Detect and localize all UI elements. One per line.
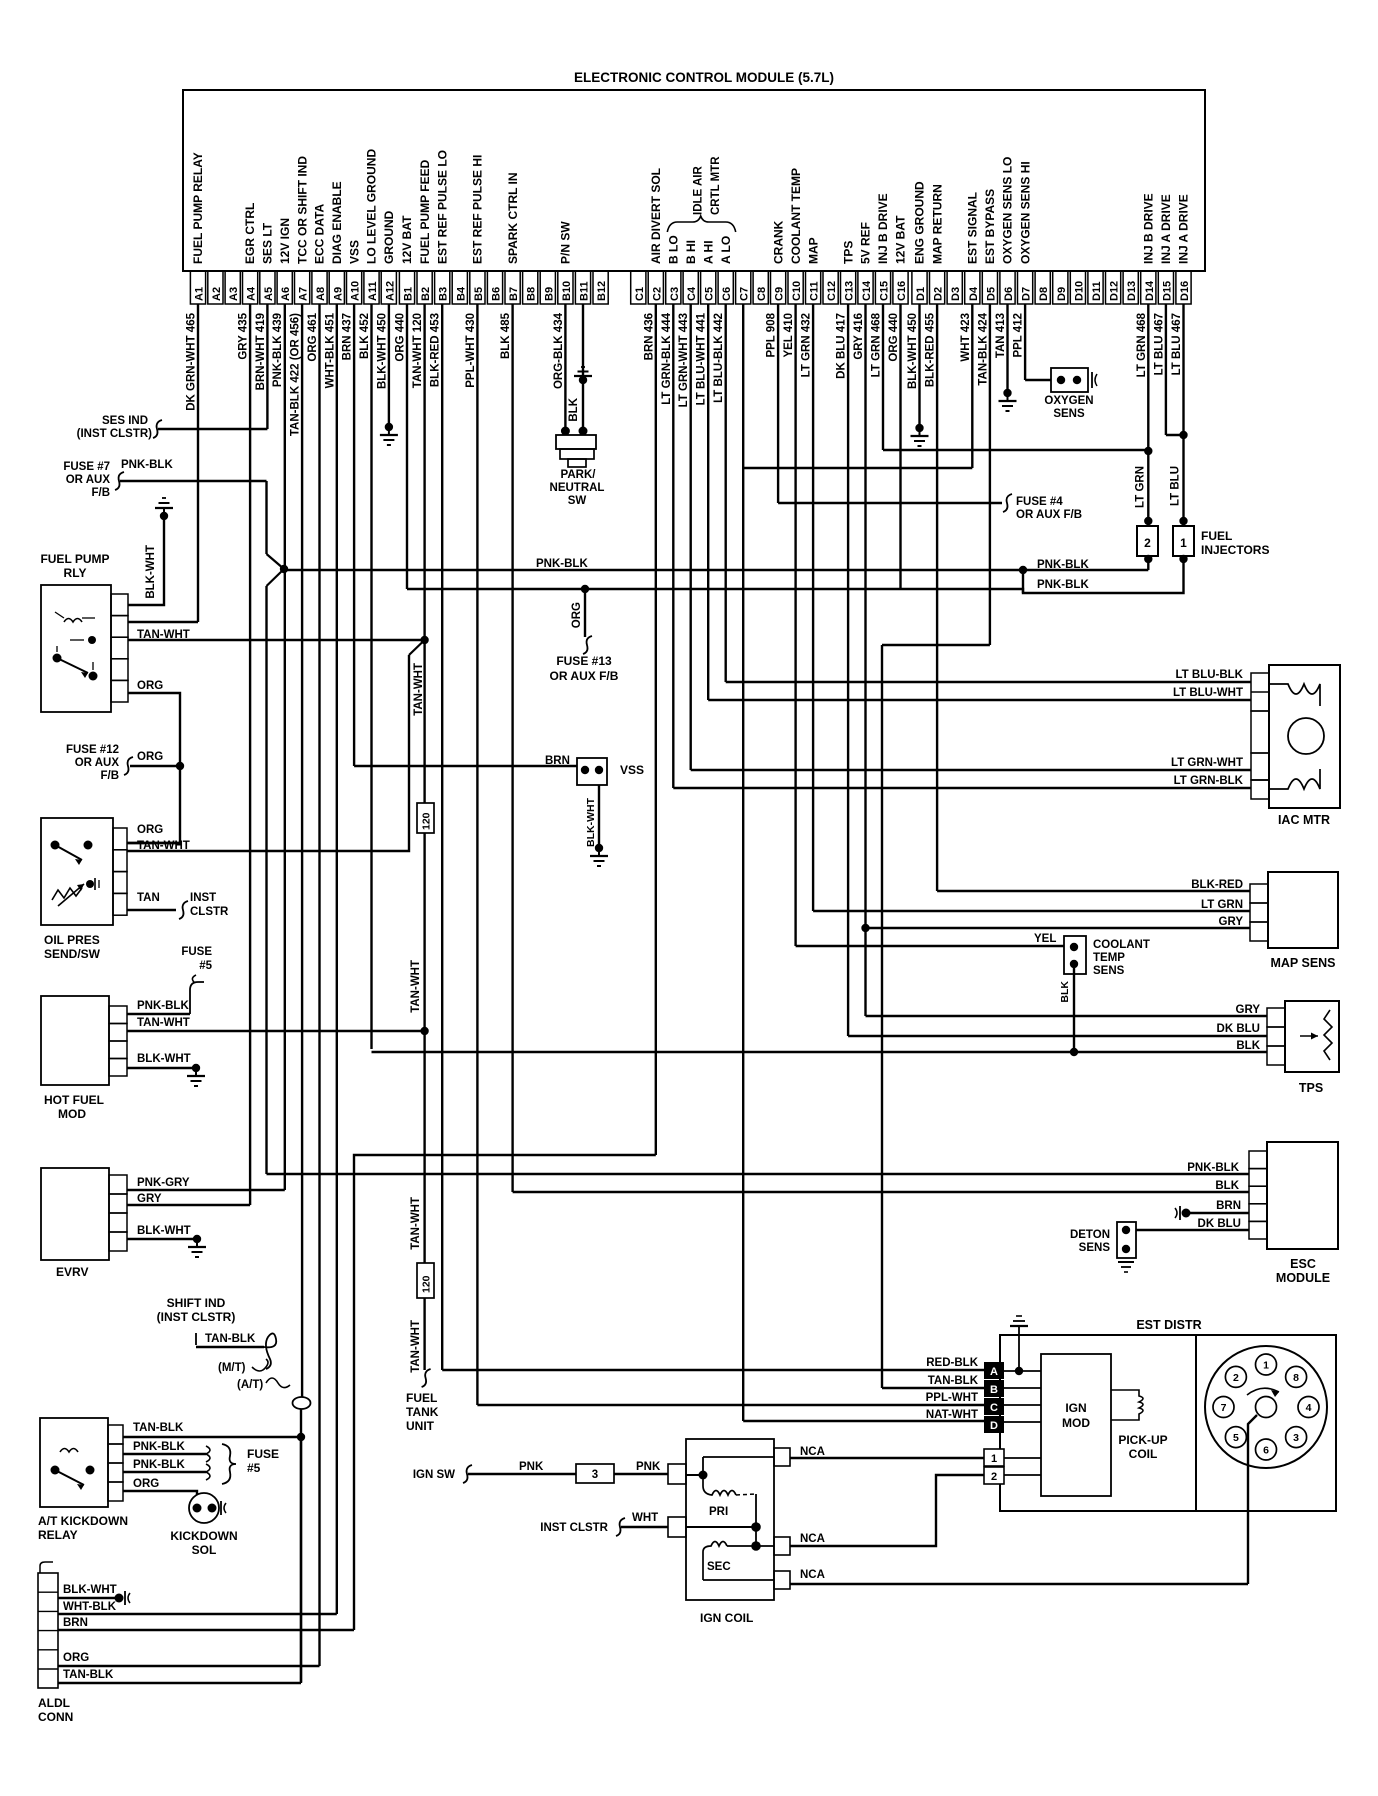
svg-text:A2: A2 xyxy=(211,287,223,301)
label PNK-BLK xyxy=(133,1459,185,1471)
svg-text:DK BLU 417: DK BLU 417 xyxy=(836,313,848,379)
label BLK-WHT xyxy=(137,1053,191,1065)
svg-text:KICKDOWN: KICKDOWN xyxy=(170,1529,237,1543)
svg-text:PNK-BLK: PNK-BLK xyxy=(133,1441,185,1453)
svg-text:EGR CTRL: EGR CTRL xyxy=(243,203,257,264)
label GRY xyxy=(137,1193,162,1205)
svg-text:D11: D11 xyxy=(1091,281,1103,301)
svg-text:7: 7 xyxy=(1221,1402,1227,1414)
svg-text:BLK-WHT: BLK-WHT xyxy=(137,1053,191,1065)
svg-text:#5: #5 xyxy=(199,960,212,972)
label ORG xyxy=(137,751,163,763)
svg-text:SES IND: SES IND xyxy=(102,415,148,427)
svg-text:PNK-BLK: PNK-BLK xyxy=(1187,1162,1239,1174)
component IGN MOD box xyxy=(1041,1354,1111,1496)
connector FUSE #5 brace xyxy=(222,1444,279,1484)
svg-text:BLK-WHT: BLK-WHT xyxy=(145,545,157,599)
wire from pin D1 with ground xyxy=(911,304,929,446)
connector SES IND (INST CLSTR) xyxy=(77,415,162,440)
wire from pin B10 ORG-BLK 434 xyxy=(564,304,566,431)
component PARK/NEUTRAL SW xyxy=(550,427,605,508)
svg-text:PPL-WHT 430: PPL-WHT 430 xyxy=(465,313,477,388)
svg-text:LO LEVEL GROUND: LO LEVEL GROUND xyxy=(365,149,379,264)
svg-text:D7: D7 xyxy=(1021,287,1033,301)
svg-text:D15: D15 xyxy=(1161,281,1173,301)
wire ORG node down to oil pres xyxy=(127,766,180,843)
svg-text:PNK: PNK xyxy=(636,1461,661,1473)
svg-text:NCA: NCA xyxy=(800,1446,825,1458)
svg-text:BLK-WHT 450: BLK-WHT 450 xyxy=(376,313,388,389)
svg-text:C6: C6 xyxy=(721,287,733,301)
svg-text:C10: C10 xyxy=(791,281,803,301)
svg-text:MAP: MAP xyxy=(806,237,820,264)
svg-text:SEC: SEC xyxy=(707,1561,731,1573)
svg-text:TAN-WHT: TAN-WHT xyxy=(413,663,425,716)
svg-text:IAC MTR: IAC MTR xyxy=(1278,813,1330,827)
wire NCA 1 xyxy=(790,1457,984,1459)
svg-text:EST SIGNAL: EST SIGNAL xyxy=(966,192,980,264)
wire kickdown PNK-BLK fuse arm 1 xyxy=(123,1446,210,1462)
svg-text:D16: D16 xyxy=(1179,281,1191,301)
wire from pin D7 PPL 412 xyxy=(1024,304,1026,380)
wire ESC BLK from B7 xyxy=(513,1191,1249,1193)
svg-text:ECC DATA: ECC DATA xyxy=(313,203,327,264)
wire B2 below 120 resistor xyxy=(423,833,425,1263)
svg-text:ORG: ORG xyxy=(571,602,583,628)
svg-text:2: 2 xyxy=(991,1471,997,1483)
wire C9 to FUSE 4 xyxy=(778,494,1012,512)
svg-text:B HI: B HI xyxy=(684,240,698,264)
svg-text:A5: A5 xyxy=(263,287,275,301)
svg-text:C7: C7 xyxy=(739,287,751,301)
svg-text:A12: A12 xyxy=(384,281,396,301)
svg-text:INJ A DRIVE: INJ A DRIVE xyxy=(1159,194,1173,264)
ECM wire colour labels (rotated) xyxy=(186,312,1184,436)
svg-text:TAN-BLK 424: TAN-BLK 424 xyxy=(977,312,989,385)
wire PNK-BLK injector feed 1 xyxy=(284,559,1148,574)
svg-text:A7: A7 xyxy=(298,287,310,301)
component FUEL TANK UNIT label xyxy=(406,1391,439,1433)
svg-text:6: 6 xyxy=(1263,1445,1269,1457)
wire from pin C6 LT BLU-BLK 442 xyxy=(725,304,727,682)
svg-text:B2: B2 xyxy=(420,287,432,301)
svg-text:4: 4 xyxy=(1306,1402,1312,1414)
resistor 120 upper xyxy=(417,803,434,833)
wire MAP BLK-RED xyxy=(937,890,1250,892)
svg-text:BRN: BRN xyxy=(63,1617,88,1629)
svg-text:120: 120 xyxy=(421,812,433,830)
wire D5 jog xyxy=(882,644,990,646)
svg-text:ORG: ORG xyxy=(133,1478,159,1490)
svg-text:CRTL MTR: CRTL MTR xyxy=(710,156,722,215)
svg-text:OXYGEN SENS HI: OXYGEN SENS HI xyxy=(1018,161,1032,264)
wire oil pres ORG xyxy=(127,842,180,844)
component TPS xyxy=(1267,1001,1339,1095)
label PNK xyxy=(636,1461,661,1473)
label BLK-WHT xyxy=(63,1584,117,1596)
wire ALDL WHT-BLK to A9 xyxy=(58,1613,337,1615)
wire BRN riser and crossover xyxy=(354,1155,656,1630)
svg-text:COOLANT TEMP: COOLANT TEMP xyxy=(789,168,803,264)
connector FUSE #5 xyxy=(181,946,212,1014)
svg-text:FUEL: FUEL xyxy=(1201,529,1232,543)
label (A/T) pigtail xyxy=(237,1378,311,1409)
svg-text:NCA: NCA xyxy=(800,1569,825,1581)
wire relay BLK-WHT to ground xyxy=(128,498,173,605)
svg-text:SW: SW xyxy=(568,495,587,507)
label BLK xyxy=(1236,1040,1260,1052)
wire from pin C11 LT GRN 432 xyxy=(812,304,814,911)
component DETON SENS xyxy=(1070,1222,1136,1272)
label BLK (rotated) xyxy=(1059,981,1071,1003)
svg-text:ORG: ORG xyxy=(137,751,163,763)
wire kickdown ORG to solenoid xyxy=(123,1491,197,1495)
wire MAP LT GRN xyxy=(813,910,1250,912)
svg-text:F/B: F/B xyxy=(100,770,119,782)
label DK BLU xyxy=(1217,1023,1260,1035)
label LT BLU xyxy=(1170,466,1182,506)
svg-text:MAP SENS: MAP SENS xyxy=(1270,956,1335,970)
wire relay ORG to fuse 12 node xyxy=(128,693,184,770)
svg-text:PNK-BLK: PNK-BLK xyxy=(133,1459,185,1471)
label BLK xyxy=(1215,1180,1239,1192)
kickdown relay internals xyxy=(51,1449,95,1491)
svg-text:2: 2 xyxy=(1233,1372,1239,1384)
label TAN-WHT (rotated) xyxy=(410,960,422,1013)
svg-text:ELECTRONIC CONTROL MODULE (5.7: ELECTRONIC CONTROL MODULE (5.7L) xyxy=(574,70,834,85)
wire from pin C13 DK BLU 417 xyxy=(847,304,849,1036)
svg-text:DETON: DETON xyxy=(1070,1229,1110,1241)
svg-text:WHT 423: WHT 423 xyxy=(960,313,972,362)
label ORG xyxy=(137,680,163,692)
svg-text:TAN-WHT: TAN-WHT xyxy=(137,840,190,852)
wire MAP GRY xyxy=(866,927,1251,929)
svg-text:PPL-WHT: PPL-WHT xyxy=(926,1392,978,1404)
component COOLANT TEMP SENS xyxy=(1064,936,1150,977)
label TAN-BLK xyxy=(133,1422,184,1434)
svg-text:BLK: BLK xyxy=(1059,981,1071,1003)
svg-text:PPL 412: PPL 412 xyxy=(1013,313,1025,358)
svg-text:BLK: BLK xyxy=(1236,1040,1260,1052)
svg-text:C15: C15 xyxy=(879,281,891,301)
svg-text:5V REF: 5V REF xyxy=(859,222,873,264)
svg-text:LT BLU-WHT 441: LT BLU-WHT 441 xyxy=(696,312,708,405)
svg-text:FUSE #13: FUSE #13 xyxy=(556,654,612,668)
label ORG xyxy=(133,1478,159,1490)
label BLK-WHT xyxy=(137,1225,191,1237)
svg-text:OR AUX F/B: OR AUX F/B xyxy=(550,669,619,683)
svg-text:COIL: COIL xyxy=(1129,1447,1158,1461)
svg-text:ENG GROUND: ENG GROUND xyxy=(913,181,927,264)
svg-text:FUSE #12: FUSE #12 xyxy=(66,744,119,756)
wire from pin A4 GRY 435 xyxy=(249,304,251,1205)
wire fuse 13 tap xyxy=(581,585,592,654)
wire from pin B1 ORG 440 xyxy=(406,304,408,589)
svg-text:SENS: SENS xyxy=(1093,965,1125,977)
svg-text:12V IGN: 12V IGN xyxy=(278,218,292,264)
svg-text:C9: C9 xyxy=(774,287,786,301)
svg-text:OR AUX: OR AUX xyxy=(66,474,111,486)
wire NCA 2 xyxy=(790,1475,984,1546)
svg-text:(INST CLSTR): (INST CLSTR) xyxy=(77,428,153,440)
svg-text:A6: A6 xyxy=(280,287,292,301)
label PNK-BLK xyxy=(1037,559,1089,571)
svg-text:A4: A4 xyxy=(246,286,258,301)
wire A7 TAN-BLK run xyxy=(297,304,305,1682)
label WHT xyxy=(632,1512,658,1524)
wire EVRV BLK-WHT to ground xyxy=(127,1235,206,1257)
pin C black box xyxy=(984,1398,1004,1415)
svg-text:EVRV: EVRV xyxy=(56,1265,88,1279)
label DK BLU xyxy=(1198,1218,1241,1230)
svg-text:DIAG ENABLE: DIAG ENABLE xyxy=(330,181,344,264)
svg-text:D12: D12 xyxy=(1109,281,1121,301)
label ORG (rotated) xyxy=(571,602,583,628)
svg-text:SENS: SENS xyxy=(1053,408,1085,420)
wire relay coil to A1 xyxy=(128,621,198,623)
label LT BLU-WHT xyxy=(1173,687,1243,699)
fuel pump relay connector tabs xyxy=(111,594,128,702)
wire from pin C2 BRN 436 xyxy=(655,304,657,1155)
wire relay TAN-WHT feed xyxy=(128,636,429,644)
svg-text:PNK-BLK: PNK-BLK xyxy=(121,459,173,471)
svg-text:D9: D9 xyxy=(1056,287,1068,301)
svg-text:1: 1 xyxy=(1263,1360,1269,1372)
wire NCA 3 xyxy=(790,1583,1248,1585)
label SHIFT IND (INST CLSTR) xyxy=(157,1296,236,1324)
wire kickdown TAN-BLK to junction xyxy=(123,1436,301,1438)
component ESC MODULE xyxy=(1249,1142,1338,1285)
fuse 3 box xyxy=(576,1464,614,1483)
svg-text:A3: A3 xyxy=(228,287,240,301)
svg-text:PNK-BLK 439: PNK-BLK 439 xyxy=(272,313,284,387)
wire oil pres TAN to inst clstr xyxy=(127,901,188,919)
svg-text:TPS: TPS xyxy=(841,241,855,264)
svg-text:CONN: CONN xyxy=(38,1710,73,1724)
svg-text:CLSTR: CLSTR xyxy=(190,906,229,918)
wire from pin D2 BLK-RED 455 xyxy=(936,304,938,891)
label BLK-WHT (rotated) xyxy=(585,797,597,847)
svg-text:WHT-BLK: WHT-BLK xyxy=(63,1601,117,1613)
svg-text:ORG 440: ORG 440 xyxy=(395,313,407,362)
wire from pin C4 LT GRN-WHT 443 xyxy=(690,304,692,770)
svg-text:DK BLU: DK BLU xyxy=(1198,1218,1241,1230)
svg-text:2: 2 xyxy=(1144,536,1151,550)
wire SES IND to A5 xyxy=(158,428,267,430)
svg-text:IGN COIL: IGN COIL xyxy=(700,1611,753,1625)
svg-text:HOT FUEL: HOT FUEL xyxy=(44,1093,104,1107)
svg-text:LT GRN: LT GRN xyxy=(1201,899,1243,911)
svg-text:TAN-WHT: TAN-WHT xyxy=(410,1320,422,1373)
wire hot fuel BLK-WHT to ground xyxy=(127,1064,205,1086)
svg-text:A HI: A HI xyxy=(701,240,715,264)
svg-text:8: 8 xyxy=(1293,1372,1299,1384)
label PNK xyxy=(519,1461,544,1473)
svg-text:PICK-UP: PICK-UP xyxy=(1118,1433,1167,1447)
hot fuel mod connector tabs xyxy=(109,1006,127,1076)
pin A black box xyxy=(984,1362,1004,1379)
svg-text:ORG-BLK 434: ORG-BLK 434 xyxy=(553,312,565,389)
svg-text:C4: C4 xyxy=(686,286,698,301)
wire FUSE #7 PNK-BLK feed xyxy=(120,481,267,554)
svg-text:D13: D13 xyxy=(1126,281,1138,301)
svg-text:BRN 436: BRN 436 xyxy=(643,313,655,360)
label NCA xyxy=(800,1446,825,1458)
svg-text:BLK-WHT: BLK-WHT xyxy=(63,1584,117,1596)
svg-text:B11: B11 xyxy=(579,281,591,301)
svg-text:C12: C12 xyxy=(826,281,838,301)
wire fuse 3 to coil xyxy=(614,1473,668,1475)
wire coolant BLK drop xyxy=(1070,964,1078,1056)
svg-text:FUEL: FUEL xyxy=(406,1391,437,1405)
svg-text:TPS: TPS xyxy=(1299,1081,1323,1095)
svg-text:DK GRN-WHT 465: DK GRN-WHT 465 xyxy=(186,312,198,410)
svg-text:UNIT: UNIT xyxy=(406,1419,435,1433)
label BRN xyxy=(63,1617,88,1629)
wire ESC PNK-BLK xyxy=(267,1173,1250,1175)
wire IGN SW PNK feed xyxy=(413,1465,576,1483)
label (M/T) pigtail xyxy=(218,1359,268,1374)
svg-text:GROUND: GROUND xyxy=(382,210,396,264)
oil pres internals xyxy=(51,841,100,907)
component KICKDOWN SOL xyxy=(170,1493,237,1557)
label GRY xyxy=(1236,1004,1261,1016)
svg-text:D6: D6 xyxy=(1003,287,1015,301)
component IGN COIL box xyxy=(686,1439,774,1625)
svg-text:BRN 437: BRN 437 xyxy=(342,313,354,360)
svg-text:NCA: NCA xyxy=(800,1533,825,1545)
wire from pin A8 ORG 461 xyxy=(318,304,320,1665)
wire A9 lower xyxy=(336,1613,338,1614)
est pin 1-2 leads xyxy=(1004,1458,1041,1475)
coil right tabs xyxy=(774,1448,790,1589)
svg-text:OR AUX: OR AUX xyxy=(75,757,120,769)
label TAN xyxy=(137,892,160,904)
svg-text:OIL PRES: OIL PRES xyxy=(44,933,100,947)
svg-text:A1: A1 xyxy=(194,287,206,301)
svg-text:ORG 440: ORG 440 xyxy=(888,313,900,362)
svg-text:WHT: WHT xyxy=(632,1512,658,1524)
svg-text:D1: D1 xyxy=(915,287,927,301)
label RED-BLK xyxy=(926,1357,978,1369)
svg-text:B6: B6 xyxy=(491,287,503,301)
svg-text:LT BLU-WHT: LT BLU-WHT xyxy=(1173,687,1243,699)
wire from pin D4 WHT 423 xyxy=(971,304,973,468)
coil left tab 2 xyxy=(668,1517,686,1537)
ECM pin function labels (rotated) xyxy=(191,149,1190,264)
svg-text:BLK 452: BLK 452 xyxy=(359,313,371,359)
svg-text:B7: B7 xyxy=(508,287,520,301)
svg-text:B9: B9 xyxy=(543,287,555,301)
est internal pin leads xyxy=(1004,1371,1041,1422)
svg-text:3: 3 xyxy=(1293,1432,1299,1444)
svg-text:GRY: GRY xyxy=(1219,916,1244,928)
svg-text:TAN: TAN xyxy=(137,892,160,904)
component OIL PRES SEND/SW box xyxy=(41,818,113,961)
label NCA xyxy=(800,1569,825,1581)
svg-text:BLK-RED 455: BLK-RED 455 xyxy=(925,312,937,387)
svg-text:INST: INST xyxy=(190,892,216,904)
component fuel injector 2 xyxy=(1137,517,1158,563)
svg-text:ORG: ORG xyxy=(137,824,163,836)
label BLK (rotated) xyxy=(568,397,580,421)
wire from pin A10 BRN 437 xyxy=(353,304,355,766)
svg-text:ALDL: ALDL xyxy=(38,1696,70,1710)
wire from pin B5 PPL-WHT 430 xyxy=(476,304,478,1405)
svg-text:INST CLSTR: INST CLSTR xyxy=(540,1522,608,1534)
svg-text:B LO: B LO xyxy=(667,235,681,264)
wire NAT-WHT C7 to EST D xyxy=(743,1420,984,1422)
wire from pin C5 LT BLU-WHT 441 xyxy=(707,304,709,700)
label PNK-BLK xyxy=(137,1000,189,1012)
svg-text:TEMP: TEMP xyxy=(1093,952,1125,964)
svg-text:EST REF PULSE HI: EST REF PULSE HI xyxy=(471,155,485,264)
svg-text:F/B: F/B xyxy=(91,487,110,499)
svg-text:LT BLU 467: LT BLU 467 xyxy=(1153,313,1165,375)
svg-text:INJ B DRIVE: INJ B DRIVE xyxy=(1142,193,1156,264)
svg-text:AIR DIVERT SOL: AIR DIVERT SOL xyxy=(649,168,663,264)
svg-text:(A/T): (A/T) xyxy=(237,1379,263,1391)
svg-text:INJECTORS: INJECTORS xyxy=(1201,543,1269,557)
connector INST CLSTR xyxy=(190,892,229,918)
svg-text:TAN-BLK: TAN-BLK xyxy=(133,1422,184,1434)
svg-text:SOL: SOL xyxy=(192,1543,217,1557)
wire from pin D5 TAN-BLK 424 xyxy=(989,304,991,645)
svg-text:LT GRN: LT GRN xyxy=(1134,466,1146,508)
svg-text:BLK-WHT: BLK-WHT xyxy=(585,797,597,847)
svg-text:A/T KICKDOWN: A/T KICKDOWN xyxy=(38,1514,128,1528)
component fuel injector 1 xyxy=(1173,517,1194,563)
wire from pin A6 PNK-BLK 439 xyxy=(284,304,286,1190)
svg-text:PNK: PNK xyxy=(519,1461,544,1473)
svg-text:120: 120 xyxy=(421,1275,433,1293)
label TAN-WHT xyxy=(137,840,190,852)
wire IAC LT GRN-BLK xyxy=(673,787,1251,789)
wire TAN-WHT branch to oil pres xyxy=(127,640,425,851)
wire PPL-WHT B5 to EST C xyxy=(477,1404,984,1406)
distributor cap with terminals xyxy=(1205,1346,1327,1468)
svg-text:P/N SW: P/N SW xyxy=(559,221,573,264)
component OXYGEN SENS connector xyxy=(1044,368,1097,420)
wire IAC LT GRN-WHT xyxy=(691,769,1251,771)
wire TAN-BLK with M/T loop xyxy=(196,1333,276,1369)
svg-text:RED-BLK: RED-BLK xyxy=(926,1357,978,1369)
svg-text:C1: C1 xyxy=(634,287,646,301)
svg-text:SPARK CTRL IN: SPARK CTRL IN xyxy=(506,172,520,264)
wire from pin D16 LT BLU 467 xyxy=(1179,304,1187,521)
label FUEL INJECTORS xyxy=(1201,529,1269,557)
svg-text:YEL: YEL xyxy=(1034,933,1056,945)
svg-text:D3: D3 xyxy=(950,287,962,301)
label ORG xyxy=(63,1652,89,1664)
ign coil internals xyxy=(686,1457,774,1580)
svg-text:BLK: BLK xyxy=(1215,1180,1239,1192)
wire from pin B7 BLK 485 xyxy=(511,304,513,1192)
label TAN-BLK xyxy=(63,1669,114,1681)
svg-text:MODULE: MODULE xyxy=(1276,1271,1330,1285)
svg-text:BLK-RED 453: BLK-RED 453 xyxy=(430,313,442,387)
svg-text:A LO: A LO xyxy=(719,236,733,264)
svg-text:C5: C5 xyxy=(704,287,716,301)
svg-text:(M/T): (M/T) xyxy=(218,1362,246,1374)
label PNK-GRY xyxy=(137,1177,190,1189)
svg-text:D2: D2 xyxy=(933,287,945,301)
label NCA xyxy=(800,1533,825,1545)
wire INST CLSTR WHT xyxy=(540,1518,668,1536)
connector FUSE #13 OR AUX F/B xyxy=(550,654,619,683)
wire ALDL BRN to C2 run xyxy=(58,1629,354,1631)
junction funnel to injector feed xyxy=(267,554,289,1174)
